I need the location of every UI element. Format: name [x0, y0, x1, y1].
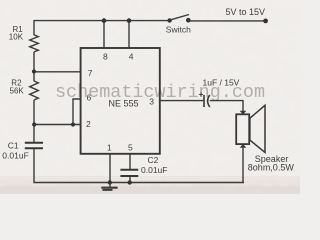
junction node C2 bottom: [128, 180, 132, 184]
ground: [101, 183, 117, 190]
junction node pin6/pin2: [71, 122, 75, 126]
wire speaker to bottom rail: [242, 147, 244, 183]
junction node pin2 left: [32, 122, 36, 126]
wire C1 to bottom rail and bottom rail: [34, 149, 244, 183]
capacitor C2: [120, 170, 138, 176]
paper background: [0, 0, 300, 194]
svg-text:1uF / 15V: 1uF / 15V: [203, 77, 240, 87]
junction node on rail at pin4: [127, 18, 132, 23]
wire pin3: [159, 100, 203, 102]
svg-text:4: 4: [129, 51, 134, 61]
speaker LS1: [236, 105, 265, 152]
svg-text:0.01uF: 0.01uF: [2, 151, 28, 161]
svg-text:C2: C2: [148, 155, 159, 165]
resistor R1: [30, 35, 39, 52]
capacitor C1: [25, 143, 43, 148]
svg-text:+: +: [199, 89, 204, 99]
svg-text:NE 555: NE 555: [109, 98, 139, 108]
svg-text:5V to 15V: 5V to 15V: [226, 7, 266, 17]
switch SW1: [167, 15, 190, 23]
svg-text:56K: 56K: [10, 87, 25, 96]
wire R2 to C1: [33, 100, 35, 142]
svg-text:6: 6: [87, 93, 92, 103]
svg-text:8: 8: [103, 51, 108, 61]
wire cap C3 to speaker: [210, 101, 243, 112]
svg-text:1: 1: [107, 142, 112, 152]
wire C2 to bottom rail: [129, 176, 131, 183]
svg-text:8ohm,0.5W: 8ohm,0.5W: [248, 163, 295, 173]
resistor R2: [30, 81, 39, 100]
junction node pin1 ground: [108, 180, 112, 184]
wire left vertical top: [33, 20, 35, 35]
svg-text:Switch: Switch: [166, 25, 191, 35]
svg-text:7: 7: [88, 68, 93, 78]
wire pin8 drop: [103, 21, 105, 48]
wire pin5 to C2: [129, 154, 131, 170]
node V+ supply terminal: [263, 19, 268, 24]
svg-text:10K: 10K: [9, 33, 24, 42]
svg-text:0.01uF: 0.01uF: [141, 165, 167, 175]
wire pin4 drop: [128, 21, 130, 48]
wire R1 to R2: [33, 52, 35, 81]
svg-text:2: 2: [86, 119, 91, 129]
wire top rail left: [34, 20, 169, 22]
junction node on rail at pin8: [102, 18, 107, 23]
wire pin1 drop: [109, 154, 111, 183]
op-amp U1 NE 555 IC body: [81, 48, 160, 154]
wire top rail right: [189, 20, 266, 22]
capacitor C3 1uF electrolytic: [204, 95, 210, 107]
svg-text:5: 5: [128, 142, 133, 152]
wire pin2: [34, 124, 81, 126]
svg-text:3: 3: [149, 96, 154, 106]
wire pin7: [34, 71, 81, 73]
junction node R1/R2/pin7: [32, 69, 36, 73]
svg-text:C1: C1: [8, 140, 19, 150]
wire pin6: [73, 99, 81, 125]
